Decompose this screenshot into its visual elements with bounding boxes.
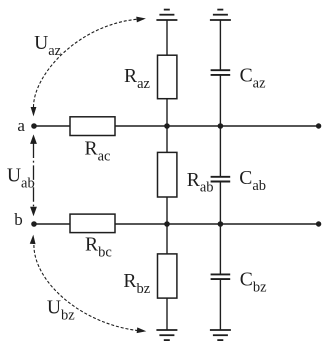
capacitor C_az xyxy=(211,70,231,75)
svg-text:a: a xyxy=(17,116,25,135)
arrowhead U_bz at bottom ground xyxy=(137,327,147,334)
wire R_az to node a xyxy=(166,99,168,154)
ground bottom right xyxy=(210,330,231,340)
arrow U_ab dash-dot line xyxy=(33,144,35,208)
arrowhead U_az at top ground xyxy=(136,16,146,23)
svg-text:Rbc: Rbc xyxy=(85,235,112,261)
svg-text:Uaz: Uaz xyxy=(34,33,62,59)
wire C_ab to node b then to C_bz xyxy=(219,182,221,275)
svg-text:Uab: Uab xyxy=(7,166,35,192)
resistor R_bc xyxy=(70,214,115,233)
arrow U_bz dashed curve xyxy=(34,245,144,331)
arrowhead U_ab up at node a xyxy=(30,134,37,144)
svg-text:Cbz: Cbz xyxy=(240,270,267,296)
arrowhead U_az at node a xyxy=(31,107,37,116)
node b junction dot xyxy=(31,221,37,227)
svg-text:Raz: Raz xyxy=(124,66,151,92)
junction dot R column node b xyxy=(164,221,170,227)
capacitor C_ab xyxy=(211,177,231,182)
ground top left xyxy=(156,10,177,20)
wire node b left segment xyxy=(34,223,71,225)
wire R_ab to node b xyxy=(166,197,168,255)
wire node b middle segment xyxy=(115,223,319,225)
svg-text:Cab: Cab xyxy=(239,168,266,194)
wire R_bz to bottom ground xyxy=(166,298,168,331)
svg-text:b: b xyxy=(14,210,22,229)
svg-text:Rab: Rab xyxy=(187,170,214,196)
resistor R_az xyxy=(158,55,177,98)
terminal dot node a right xyxy=(316,123,321,128)
wire top ground to C_az xyxy=(219,20,221,70)
junction dot R column node a xyxy=(164,123,170,129)
junction dot C column node a xyxy=(218,123,224,129)
resistor R_ac xyxy=(70,117,115,136)
arrow U_az dashed curve xyxy=(34,19,145,107)
svg-text:Rac: Rac xyxy=(85,139,111,165)
wire C_az to node a then to C_ab xyxy=(219,75,221,177)
wire node a left segment xyxy=(34,125,71,127)
ground bottom left xyxy=(156,330,177,340)
resistor R_ab xyxy=(158,152,177,197)
capacitor C_bz xyxy=(211,274,231,279)
wire top ground to R_az xyxy=(166,20,168,56)
svg-text:Ubz: Ubz xyxy=(47,298,75,324)
arrowhead U_ab down at node b xyxy=(30,207,37,217)
ground top right xyxy=(210,10,231,20)
terminal dot node b right xyxy=(316,221,321,226)
arrowhead U_bz at node b xyxy=(30,234,36,244)
resistor R_bz xyxy=(158,254,177,298)
svg-text:Caz: Caz xyxy=(240,66,267,92)
junction dot C column node b xyxy=(218,221,224,227)
svg-text:Rbz: Rbz xyxy=(123,271,150,297)
node a junction dot xyxy=(31,123,37,129)
wire C_bz to bottom ground xyxy=(219,279,221,330)
wire node a middle segment xyxy=(115,125,319,127)
